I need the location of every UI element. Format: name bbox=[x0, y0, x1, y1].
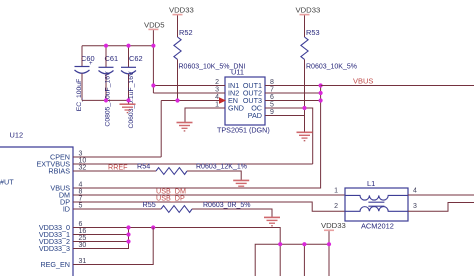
capacitor C62 bbox=[121, 46, 143, 129]
wire VDD33 bottom rail bbox=[255, 244, 329, 276]
pin numbers U11 right bbox=[270, 79, 274, 116]
svg-text:8: 8 bbox=[79, 189, 83, 196]
svg-text:5: 5 bbox=[79, 203, 83, 210]
svg-text:6: 6 bbox=[270, 94, 274, 101]
svg-text:R54: R54 bbox=[137, 162, 150, 171]
op-amp U11 TPS2051 box bbox=[217, 68, 270, 135]
wire OUT2 (pin 7) to bus bbox=[265, 92, 321, 94]
EN pin arrow bbox=[219, 97, 226, 103]
pin numbers L1 bbox=[334, 188, 417, 211]
op-amp U12 box corner bbox=[0, 131, 73, 276]
node rail junctions bbox=[278, 242, 331, 246]
svg-text:RBIAS: RBIAS bbox=[48, 167, 70, 176]
capacitor C61 bbox=[99, 46, 119, 127]
svg-text:1: 1 bbox=[215, 102, 219, 109]
wire cap top rail bbox=[82, 45, 153, 47]
wire VDD5 to IN1 (pin 2) bbox=[153, 85, 225, 87]
node bus junctions bbox=[319, 83, 323, 102]
svg-text:VDD33: VDD33 bbox=[321, 221, 346, 230]
svg-text:8: 8 bbox=[270, 79, 274, 86]
wire VDD33_1 (pin 16) bbox=[73, 234, 129, 236]
svg-text:32: 32 bbox=[79, 165, 87, 172]
power symbol VDD33 (top right) bbox=[296, 6, 321, 38]
wire GND (pin 1) row bbox=[185, 108, 225, 122]
svg-text:L1: L1 bbox=[367, 179, 375, 188]
svg-text:30: 30 bbox=[79, 242, 87, 249]
ground (U11 GND pin) bbox=[177, 123, 193, 131]
svg-text:7: 7 bbox=[270, 87, 274, 94]
svg-text:2: 2 bbox=[215, 79, 219, 86]
svg-text:ID: ID bbox=[63, 205, 70, 214]
svg-text:4: 4 bbox=[79, 182, 83, 189]
ground (R55 / ID) bbox=[264, 217, 280, 225]
power symbol VDD33 (bottom) bbox=[321, 221, 346, 244]
wire OUT3 (pin 6) to bus bbox=[265, 100, 321, 102]
svg-text:GND: GND bbox=[228, 104, 244, 113]
svg-text:+: + bbox=[89, 61, 93, 67]
svg-text:R53: R53 bbox=[306, 28, 320, 37]
power symbol VDD33 (top left) bbox=[169, 6, 194, 38]
svg-text:VDD33: VDD33 bbox=[169, 6, 194, 15]
svg-text:16: 16 bbox=[79, 228, 87, 235]
wire CPEN (pin 3) bbox=[73, 156, 161, 158]
node EN/R52 junction bbox=[175, 98, 179, 102]
svg-text:ACM2012: ACM2012 bbox=[361, 222, 394, 231]
svg-text:10: 10 bbox=[79, 158, 87, 165]
wire RBIAS (pin 32) to R54 bbox=[73, 170, 156, 172]
ground (U11 PAD) bbox=[297, 132, 313, 140]
svg-text:VDD33_3: VDD33_3 bbox=[39, 244, 70, 253]
svg-text:REG_EN: REG_EN bbox=[40, 260, 70, 269]
inductor L1 ACM2012 bbox=[345, 179, 408, 231]
svg-text:RREF: RREF bbox=[108, 163, 128, 172]
L1 bottom coil bbox=[345, 207, 408, 212]
L1 core lines bbox=[368, 201, 384, 203]
svg-text:PAD: PAD bbox=[248, 111, 262, 120]
svg-text:25: 25 bbox=[79, 235, 87, 242]
L1 top coil bbox=[345, 195, 408, 200]
svg-text:5: 5 bbox=[270, 102, 274, 109]
wire ID (pin 5) to R55 bbox=[73, 208, 161, 210]
wire VDD33_2 (pin 25) bbox=[73, 241, 129, 243]
svg-text:#UT: #UT bbox=[0, 178, 14, 187]
svg-text:U11: U11 bbox=[231, 68, 244, 77]
U12 pin numbers bbox=[79, 151, 87, 266]
wire OC (pin 5) row bbox=[265, 108, 313, 164]
svg-text:31: 31 bbox=[79, 258, 87, 265]
svg-text:1: 1 bbox=[334, 188, 338, 195]
wire R53 bottom through OC junction down to PAD ground bbox=[304, 60, 306, 133]
svg-text:TPS2051 (DGN): TPS2051 (DGN) bbox=[217, 126, 270, 135]
svg-text:VBUS: VBUS bbox=[353, 77, 373, 86]
wire EN (pin 4) row bbox=[161, 100, 220, 102]
svg-text:3: 3 bbox=[79, 151, 83, 158]
svg-text:C60: C60 bbox=[81, 54, 95, 63]
svg-text:2: 2 bbox=[334, 203, 338, 210]
svg-text:R0603_12K_1%: R0603_12K_1% bbox=[196, 164, 247, 171]
svg-text:3: 3 bbox=[413, 203, 417, 210]
power symbol VDD5 bbox=[144, 21, 165, 94]
svg-text:4: 4 bbox=[215, 94, 219, 101]
wire R52 bottom to EN junction bbox=[177, 60, 179, 101]
wire cap bottom rail bbox=[82, 99, 129, 101]
resistor R55 bbox=[143, 200, 251, 212]
svg-text:R0603_0R_5%: R0603_0R_5% bbox=[203, 202, 250, 209]
wire DP (pin 7) bbox=[73, 202, 345, 211]
wire VDD5 to IN2 (pin 3) bbox=[153, 92, 225, 94]
svg-text:R0603_10K_5%: R0603_10K_5% bbox=[306, 64, 357, 71]
svg-text:9: 9 bbox=[270, 109, 274, 116]
wire DM (pin 8) to L1 pin 1 bbox=[73, 194, 345, 196]
resistor R52 bbox=[174, 28, 246, 71]
capacitor C60 bbox=[75, 46, 95, 112]
svg-text:USB_DP: USB_DP bbox=[156, 194, 185, 203]
svg-text:EC_100uF: EC_100uF bbox=[76, 79, 83, 112]
resistor R54 bbox=[137, 162, 247, 175]
wire REG_EN (pin 31) bbox=[73, 228, 153, 265]
svg-text:3: 3 bbox=[215, 87, 219, 94]
wire VBUS to right edge bbox=[321, 85, 474, 87]
wire PAD (pin 9) row bbox=[265, 115, 305, 117]
wire L1 pin 3 to right edge bbox=[408, 203, 474, 212]
svg-text:C62: C62 bbox=[129, 54, 143, 63]
wire R54 to ground bbox=[187, 171, 241, 180]
svg-text:VDD33: VDD33 bbox=[296, 6, 321, 15]
svg-text:R52: R52 bbox=[179, 28, 193, 37]
svg-text:VDD5: VDD5 bbox=[144, 21, 165, 30]
ground (capacitor rail) bbox=[120, 100, 136, 112]
svg-text:R55: R55 bbox=[143, 200, 156, 209]
svg-text:7: 7 bbox=[79, 196, 83, 203]
ground (R54) bbox=[233, 180, 249, 186]
wire R55 to ground bbox=[192, 209, 272, 217]
svg-text:6: 6 bbox=[79, 221, 83, 228]
wire CPEN vertical bbox=[160, 101, 162, 158]
wire VDD33_0 (pin 6) row bbox=[73, 228, 280, 245]
node OC/R53 junction bbox=[302, 106, 306, 110]
wire VDD33_3 (pin 30) bbox=[73, 228, 129, 249]
wire EXTVBUS (pin 10) bbox=[73, 163, 313, 165]
U12 pin names bbox=[36, 153, 70, 270]
wire L1 pin 4 to right edge bbox=[408, 194, 474, 196]
pin numbers U11 left bbox=[215, 79, 219, 109]
wire OUT1 (pin 8) to bus bbox=[265, 85, 321, 87]
svg-text:C61: C61 bbox=[105, 54, 119, 63]
node junction dots on cap rails bbox=[104, 44, 156, 103]
svg-text:U12: U12 bbox=[10, 131, 24, 140]
svg-text:4: 4 bbox=[413, 188, 417, 195]
node VDD5/IN1 junction bbox=[151, 83, 155, 87]
resistor R53 bbox=[301, 28, 357, 71]
wire VBUS output bus vertical bbox=[73, 86, 321, 189]
node VDD33 row junctions bbox=[126, 225, 155, 243]
wire rail drop verticals bbox=[279, 244, 281, 276]
